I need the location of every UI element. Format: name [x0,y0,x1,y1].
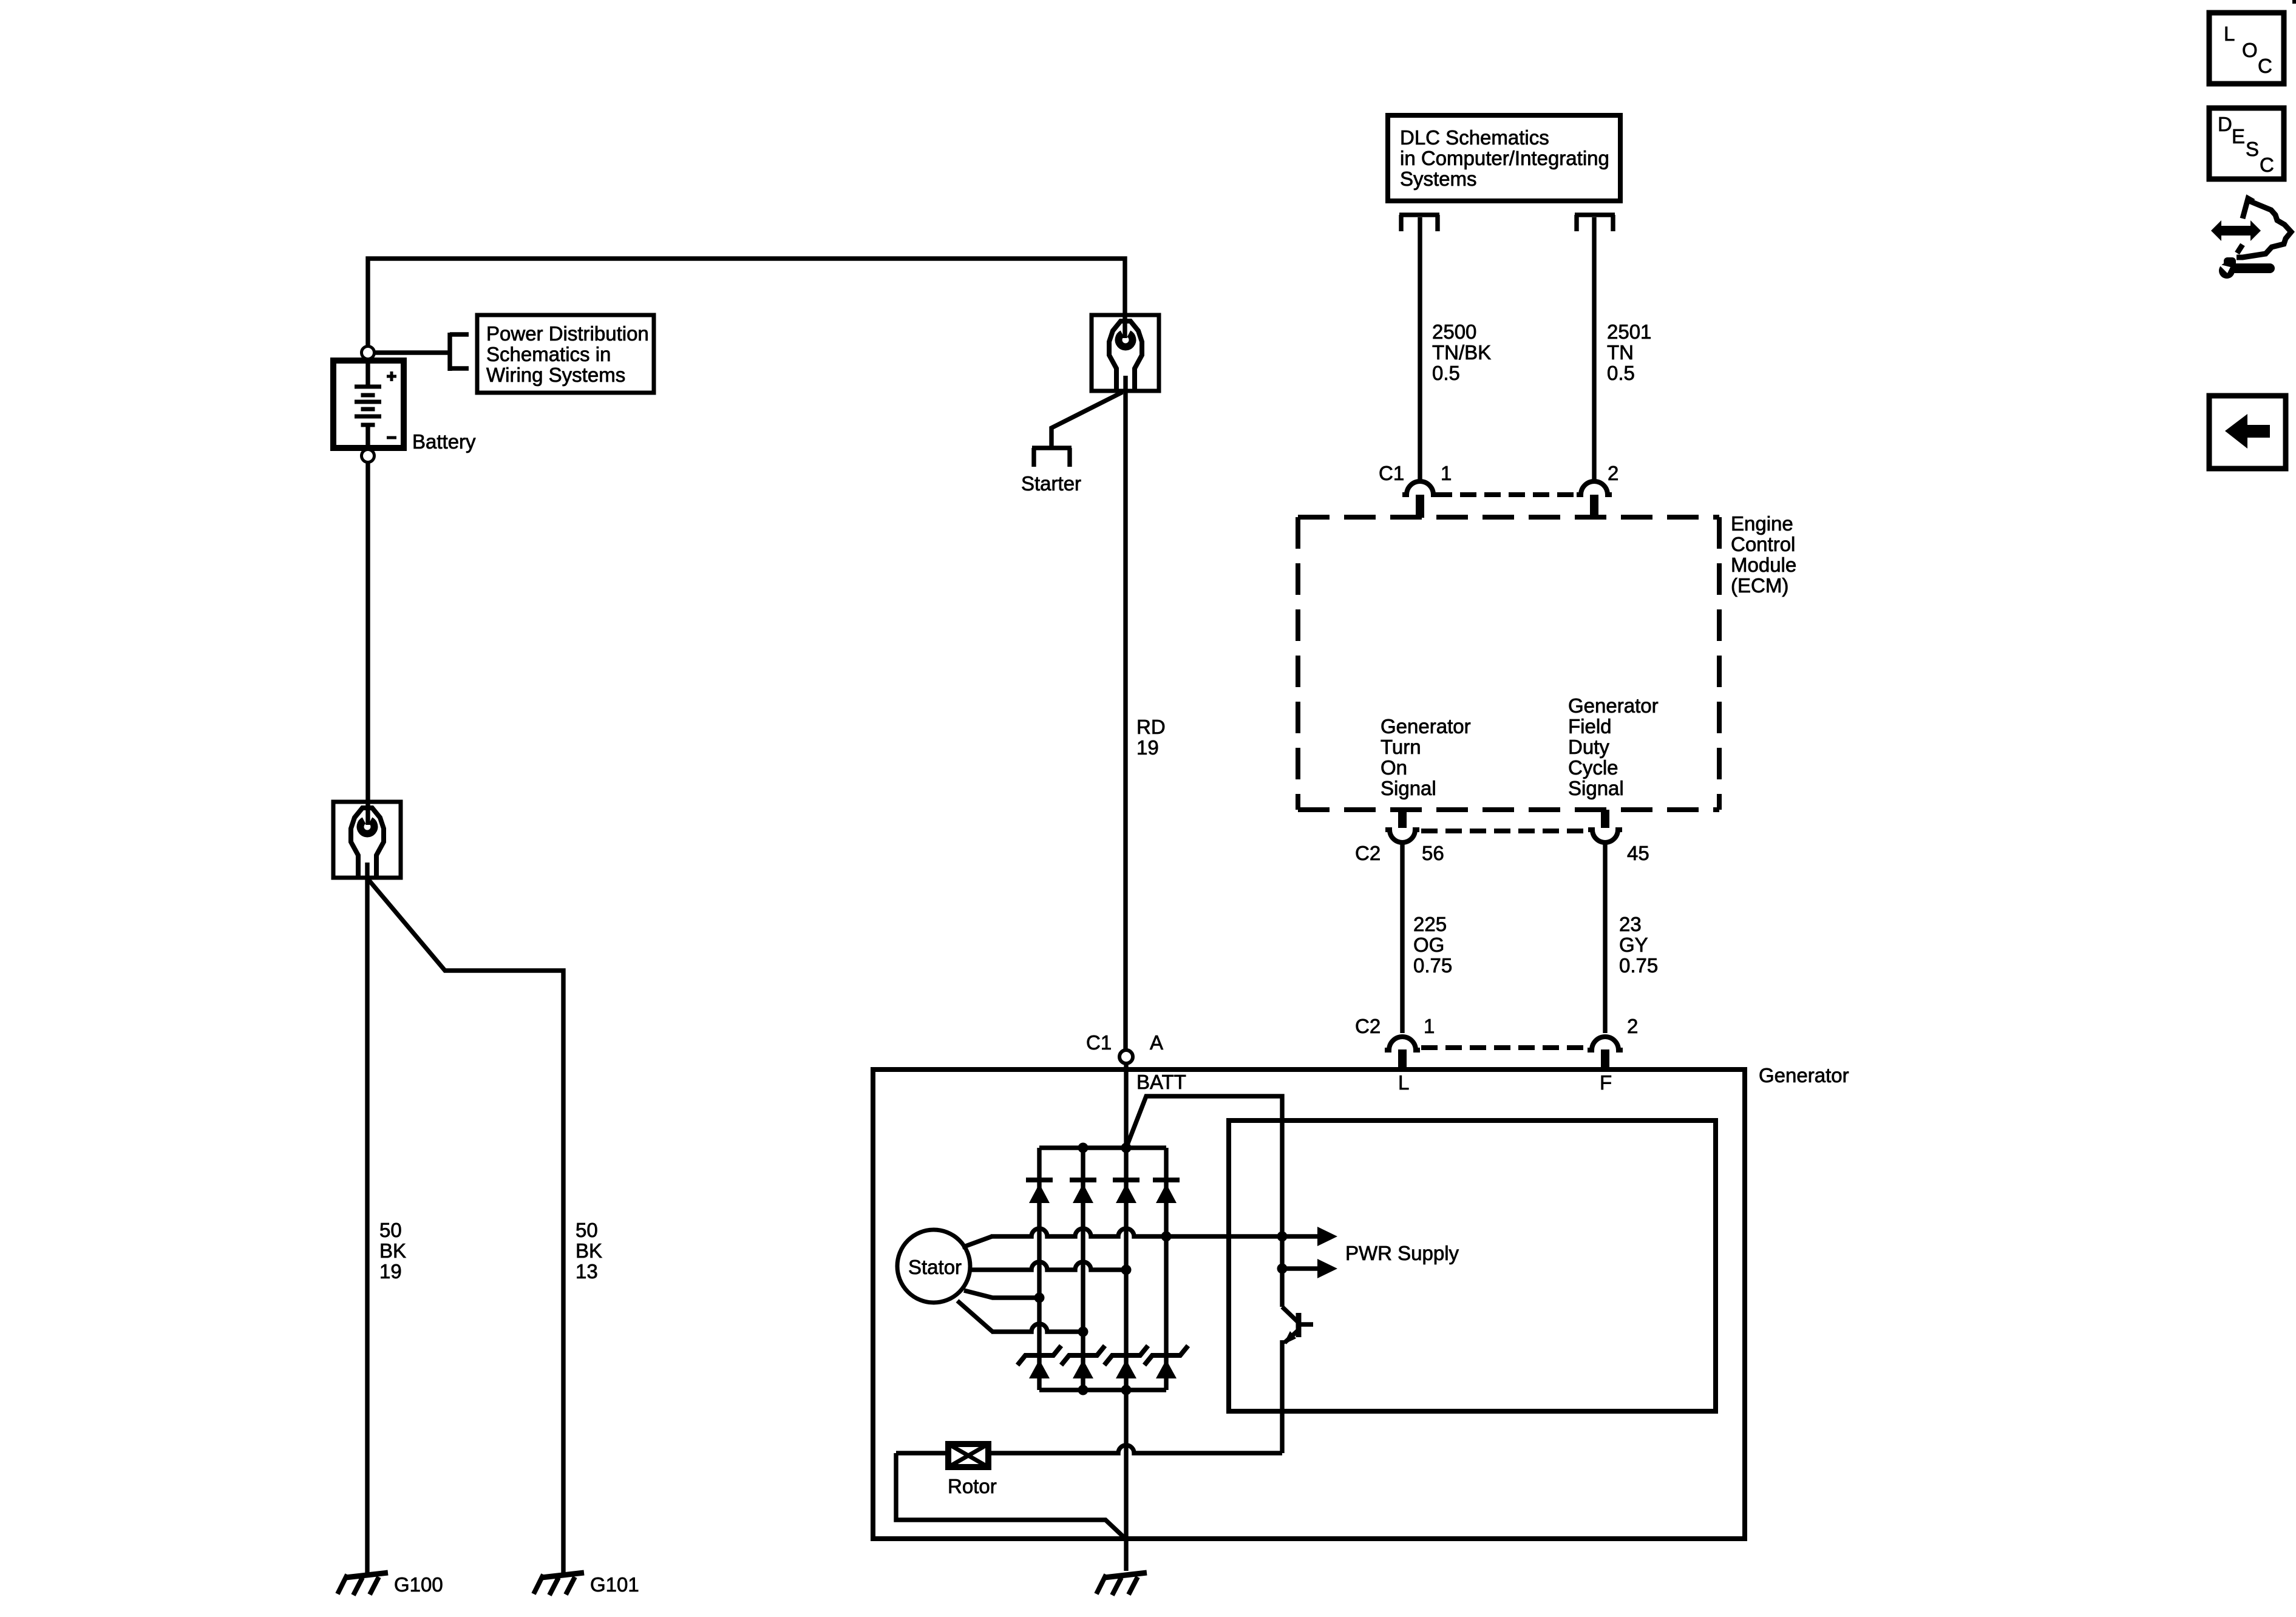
node: battery positive terminal [362,347,375,359]
wire: ground wire 50 BK 19 to G100 [365,863,369,1573]
diode D4 (positive rectifier) [1153,1180,1180,1203]
ground G100 [338,1573,388,1595]
connector bracket (DLC wire 2500) [1399,215,1439,231]
label: Engine Control Module (ECM) [1731,512,1796,597]
svg-text:Generator: Generator [1381,715,1471,737]
wire: 225 OG 0.75 [1400,844,1404,1033]
connector bracket (DLC wire 2501) [1575,215,1615,231]
zener diode D6 (negative rectifier) [1061,1346,1105,1378]
diode D2 (positive rectifier) [1070,1180,1096,1203]
wire: 23 GY 0.75 [1603,844,1607,1033]
diode D1 (positive rectifier) [1026,1180,1053,1203]
dashed tie: C1 connector row [1436,492,1578,497]
zener diode D8 (negative rectifier) [1144,1346,1188,1378]
ring terminal (starter feed) [1092,315,1159,391]
svg-text:Power Distribution: Power Distribution [486,322,649,345]
node: phase 1 junctions [1161,1232,1288,1242]
label: generator terminal L [1398,1071,1409,1094]
label: wire 23 GY 0.75 [1619,913,1658,977]
wire: 2501 TN 0.5 [1592,217,1596,483]
reference box: Power Distribution Schematics in Wiring Systems [477,315,654,393]
svg-text:TN/BK: TN/BK [1432,341,1491,364]
voltage regulator box [1229,1120,1716,1411]
rectifier bridge bottom bus [1039,1388,1166,1392]
tap bracket to Power Distribution Schematics [450,333,469,371]
svg-text:BK: BK [379,1239,406,1262]
label: wire 2501 TN 0.5 [1607,320,1651,384]
node: junction C1 A (BATT terminal) [1119,1050,1133,1063]
svg-text:Engine: Engine [1731,512,1793,535]
svg-text:C2: C2 [1355,842,1381,864]
svg-text:Schematics in: Schematics in [486,343,611,365]
wire: stator phase lead 2 [970,1262,1126,1270]
svg-text:C1: C1 [1379,462,1404,484]
label: connector C1 pins [1379,462,1618,484]
connector C2 pin 45 at ECM [1588,810,1622,842]
ground: generator case [1096,1573,1147,1595]
node: phase 3 junction [1034,1293,1045,1303]
arrow: PWR supply feed 1 [1317,1227,1337,1246]
label: BATT [1136,1071,1186,1093]
wire: rotor field circuit [896,1445,1282,1539]
transistor Q1 (field driver) [1282,1307,1313,1453]
rotor winding symbol [948,1444,988,1467]
svg-text:Control: Control [1731,533,1795,555]
page corner mark [2292,0,2296,4]
node: phase 2 junction [1121,1265,1132,1275]
svg-text:Starter: Starter [1021,472,1081,495]
icon box: LOC [2209,13,2284,84]
svg-text:Generator: Generator [1568,694,1659,717]
icon: adjust/repair (arrow, hand, wrench) [2211,198,2291,279]
wire: generator main vertical (BATT to ground) [1124,1063,1128,1571]
svg-text:BK: BK [576,1239,602,1262]
zener diode D5 (negative rectifier) [1017,1346,1061,1378]
svg-text:PWR Supply: PWR Supply [1345,1242,1459,1264]
svg-text:L: L [2224,22,2235,45]
wire: battery positive feed to starter (top bus) [368,259,1125,347]
label: wire 225 OG 0.75 [1413,913,1452,977]
svg-text:C1: C1 [1086,1031,1112,1054]
svg-text:C: C [2258,55,2272,77]
svg-text:S: S [2246,138,2259,160]
wire: starter branch [1051,392,1123,446]
svg-text:Turn: Turn [1381,736,1421,758]
svg-text:0.75: 0.75 [1619,954,1658,977]
svg-text:2: 2 [1608,462,1618,484]
svg-text:G101: G101 [590,1573,639,1596]
stator [897,1230,970,1303]
connector C1 pin 2 at ECM [1577,481,1612,518]
wire: ground wire 50 BK 13 branch to G101 [367,878,563,1573]
wire: stator phase lead 3 [964,1290,1039,1298]
label: G100 [394,1573,443,1596]
svg-text:0.5: 0.5 [1607,362,1635,384]
wire: BATT lead into regulator [1126,1096,1282,1307]
label: Battery [412,430,476,453]
wire: stator phase lead 1 [962,1229,1317,1247]
label: Generator Turn On Signal [1381,715,1471,799]
icon box: DESC [2209,108,2284,179]
icon box: back arrow [2209,396,2286,469]
connector C2 pin 1 at generator [1385,1037,1420,1072]
wire: battery negative down to ring terminal [365,463,370,825]
label: circuit 50 BK 19 [379,1219,406,1283]
wire: PWR supply feed 2 [1282,1266,1317,1270]
svg-text:Signal: Signal [1568,777,1624,799]
dashed tie: ECM C2 connector row [1421,829,1586,833]
dashed tie: generator C2 connector row [1421,1045,1586,1050]
svg-text:Duty: Duty [1568,736,1609,758]
label: wire 2500 TN/BK 0.5 [1432,320,1491,384]
svg-text:225: 225 [1413,913,1447,935]
svg-text:A: A [1150,1031,1163,1054]
svg-text:GY: GY [1619,934,1648,956]
generator box [873,1070,1745,1539]
svg-text:13: 13 [576,1260,598,1283]
svg-text:OG: OG [1413,934,1444,956]
label: generator terminal F [1600,1071,1612,1094]
rectifier bridge leg 2 [1081,1148,1085,1390]
label: PWR Supply [1345,1242,1459,1264]
svg-text:Battery: Battery [412,430,476,453]
wire: RD 19 from starter splice to generator BATT [1123,376,1127,1050]
svg-text:F: F [1600,1071,1612,1094]
node: phase 4 junction [1078,1327,1089,1337]
svg-text:(ECM): (ECM) [1731,574,1788,597]
svg-text:50: 50 [576,1219,598,1241]
svg-text:L: L [1398,1071,1409,1094]
node: top bus junctions [1078,1143,1132,1153]
wire: battery + to power distribution tap [375,350,450,354]
node: bottom bus junctions [1078,1385,1132,1395]
svg-text:50: 50 [379,1219,402,1241]
svg-text:Cycle: Cycle [1568,756,1618,779]
svg-text:19: 19 [1136,736,1159,759]
connector C1 pin 1 at ECM [1402,481,1438,518]
ECM dashed box [1298,517,1719,810]
svg-text:E: E [2232,125,2245,147]
ground G101 [534,1573,584,1595]
connector C2 pin 2 at generator [1588,1037,1623,1072]
svg-text:1: 1 [1424,1015,1435,1037]
svg-text:Generator: Generator [1759,1064,1849,1086]
connector C2 pin 56 at ECM [1385,810,1419,842]
svg-text:Stator: Stator [908,1256,962,1278]
svg-text:2500: 2500 [1432,320,1476,343]
label: G101 [590,1573,639,1596]
svg-text:O: O [2242,39,2258,61]
svg-text:2: 2 [1627,1015,1638,1037]
svg-text:C: C [2260,154,2274,176]
wire: stator phase lead 4 [957,1301,1083,1332]
label: Starter [1021,472,1081,495]
svg-text:0.5: 0.5 [1432,362,1460,384]
svg-text:Rotor: Rotor [948,1475,997,1497]
diode D3 (positive rectifier) [1113,1180,1140,1203]
svg-text:Systems: Systems [1400,168,1477,190]
svg-text:C2: C2 [1355,1015,1381,1037]
svg-text:On: On [1381,756,1407,779]
svg-text:in Computer/Integrating: in Computer/Integrating [1400,147,1609,169]
svg-text:45: 45 [1627,842,1649,864]
svg-text:56: 56 [1422,842,1444,864]
label: connector C1 pin A [1086,1031,1163,1054]
svg-text:23: 23 [1619,913,1642,935]
reference box: DLC Schematics in Computer/Integrating Systems [1388,115,1620,201]
battery [333,361,404,448]
svg-text:RD: RD [1136,716,1166,738]
node: PWR supply tap [1277,1264,1288,1274]
svg-text:1: 1 [1441,462,1452,484]
svg-text:Module: Module [1731,554,1796,576]
rectifier bridge leg 1 [1037,1148,1041,1390]
label: wire RD 19 [1136,716,1166,759]
svg-text:0.75: 0.75 [1413,954,1452,977]
svg-text:G100: G100 [394,1573,443,1596]
svg-text:Wiring Systems: Wiring Systems [486,364,625,386]
label: Rotor [948,1475,997,1497]
ring terminal (battery ground splice) [333,802,401,878]
wire: 2500 TN/BK 0.5 [1418,217,1422,483]
label: circuit 50 BK 13 [576,1219,602,1283]
zener diode D7 (negative rectifier) [1104,1346,1148,1378]
label: connector C2 pins 1/2 [1355,1015,1638,1037]
label: Generator Field Duty Cycle Signal [1568,694,1659,799]
svg-text:DLC Schematics: DLC Schematics [1400,126,1549,149]
svg-text:BATT: BATT [1136,1071,1186,1093]
label: connector C2 pins 56/45 [1355,842,1649,864]
svg-text:19: 19 [379,1260,402,1283]
svg-text:Field: Field [1568,715,1612,737]
node: battery negative terminal [362,450,375,463]
svg-text:TN: TN [1607,341,1634,364]
rectifier bridge top bus [1039,1145,1166,1150]
svg-text:D: D [2218,113,2232,135]
starter terminal bracket [1032,448,1072,467]
arrow: PWR supply feed 2 [1317,1259,1337,1278]
svg-text:2501: 2501 [1607,320,1651,343]
svg-text:Signal: Signal [1381,777,1436,799]
label: Generator [1759,1064,1849,1086]
rectifier bridge leg 4 [1164,1148,1168,1390]
